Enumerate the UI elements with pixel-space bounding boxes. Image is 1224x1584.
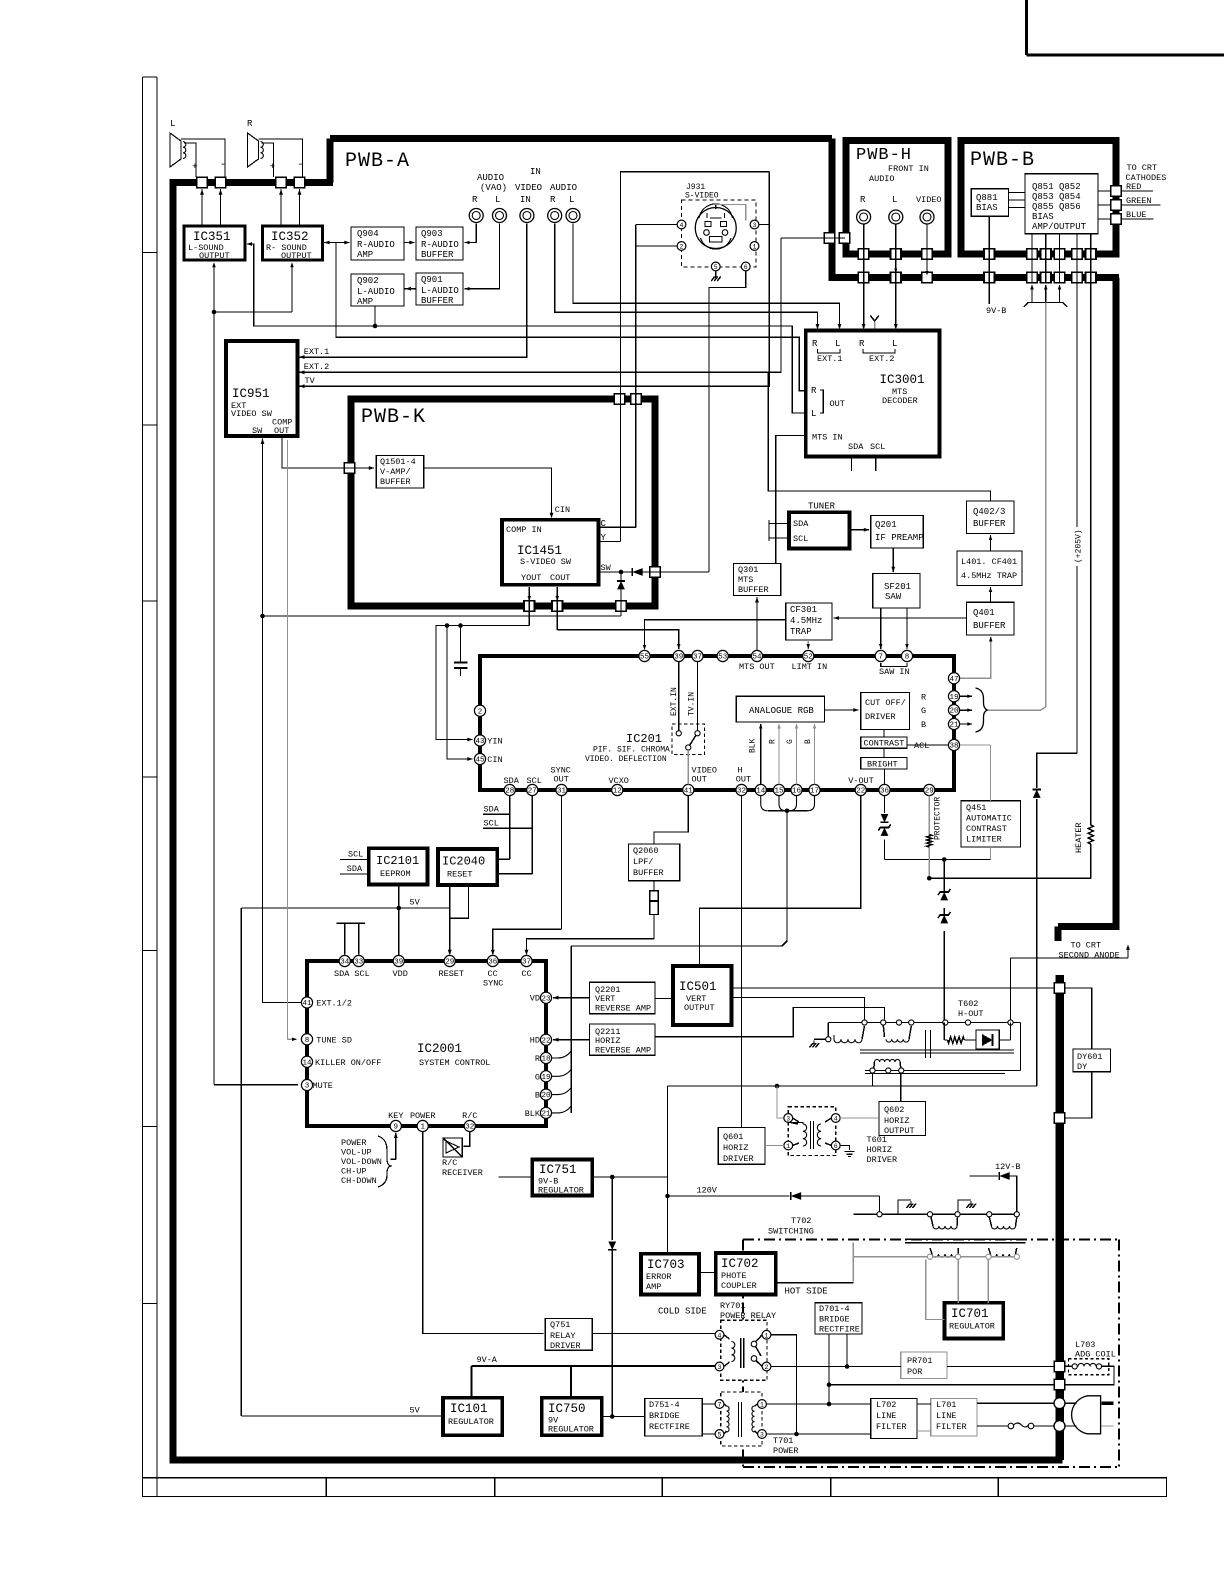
svg-text:R: R	[247, 119, 253, 129]
svg-text:32: 32	[737, 788, 746, 796]
svg-text:EEPROM: EEPROM	[380, 869, 411, 879]
svg-text:HORIZ: HORIZ	[595, 1036, 621, 1046]
wire front video stub	[925, 225, 928, 276]
svg-text:EXT.2: EXT.2	[869, 354, 895, 364]
IC201 pin 53	[717, 650, 728, 661]
svg-text:19: 19	[949, 694, 958, 702]
svg-text:L: L	[892, 195, 897, 205]
jack audio VAO R	[469, 209, 483, 223]
J931 pin 2	[677, 242, 686, 251]
svg-text:COUT: COUT	[550, 573, 570, 583]
svg-text:Q902: Q902	[357, 276, 379, 286]
svg-text:OUT: OUT	[692, 775, 707, 785]
svg-text:BLK: BLK	[749, 738, 758, 753]
svg-text:OUT: OUT	[830, 399, 845, 409]
svg-text:IC501: IC501	[679, 980, 717, 994]
wire CF301 output to IC201 pin52	[807, 640, 811, 649]
svg-text:BLUE: BLUE	[1126, 210, 1146, 220]
Q451 automatic contrast limiter	[961, 801, 1021, 847]
transistor Q904 R-audio amp	[351, 227, 404, 260]
svg-text:OUT: OUT	[274, 426, 289, 436]
diode below pin36	[881, 814, 889, 822]
wire speaker feeds from IC352	[279, 189, 301, 226]
wire Q881 bias to 9V-B	[986, 216, 1006, 316]
svg-text:CH-DOWN: CH-DOWN	[341, 1176, 377, 1186]
IC101 regulator	[443, 1398, 502, 1436]
wire MUTE net from sound outputs to IC2001 pin3	[212, 262, 298, 1084]
IC201 pin 55	[639, 650, 650, 661]
IC2001 pin 32	[462, 1111, 477, 1132]
svg-text:5V: 5V	[410, 1406, 421, 1416]
svg-text:KEY: KEY	[388, 1111, 403, 1121]
wire pin32 H OUT to Q601	[741, 796, 743, 1128]
jack front audio R	[857, 210, 871, 224]
wire IC201 pin54 MTS OUT to Q301	[755, 597, 759, 651]
svg-text:L: L	[170, 119, 175, 129]
IC201 pin 17	[809, 784, 820, 795]
svg-text:52: 52	[804, 654, 813, 662]
svg-text:5V: 5V	[410, 898, 421, 908]
svg-text:LIMT IN: LIMT IN	[792, 662, 828, 672]
svg-text:Q602: Q602	[884, 1105, 904, 1115]
wire CF301 to IC201 pin55	[643, 620, 786, 650]
svg-text:SAW: SAW	[885, 592, 902, 602]
IC201 pin 14	[755, 784, 766, 795]
svg-text:(+205V): (+205V)	[1075, 529, 1084, 563]
wires L702 to L701	[917, 1404, 931, 1431]
svg-text:120V: 120V	[697, 1186, 718, 1196]
svg-text:OUT: OUT	[736, 775, 751, 785]
svg-text:IC2001: IC2001	[417, 1042, 462, 1056]
T602 terminal	[909, 1020, 914, 1025]
svg-text:Q402/3: Q402/3	[973, 507, 1005, 517]
svg-text:6: 6	[744, 264, 748, 271]
svg-text:3: 3	[305, 1083, 310, 1091]
wire IC750 to D751 bridge	[602, 1416, 645, 1418]
T702 primary terminal	[877, 1212, 882, 1217]
RY701 pin 2	[762, 1362, 771, 1371]
svg-text:REGULATOR: REGULATOR	[548, 1425, 594, 1435]
diodes D701-4 bridge rectifier	[815, 1303, 862, 1335]
svg-text:4: 4	[718, 1332, 722, 1339]
svg-text:EXT.IN: EXT.IN	[670, 687, 679, 716]
svg-text:1: 1	[760, 1402, 764, 1409]
IC201 pin 2	[474, 705, 485, 716]
svg-text:BRIGHT: BRIGHT	[867, 760, 898, 770]
IC501 vert output	[673, 966, 732, 1025]
svg-text:BUFFER: BUFFER	[380, 477, 411, 487]
svg-text:17: 17	[810, 788, 819, 796]
svg-text:6: 6	[834, 1143, 838, 1150]
IC201 PIF SIF chroma video deflection	[480, 656, 954, 790]
wire KEY inputs bracket	[341, 1133, 398, 1188]
svg-text:R: R	[921, 693, 926, 703]
wire TUNE SD into IC2001 pin8	[288, 440, 298, 1041]
connector pads PWB-B bottom edge	[984, 249, 1096, 260]
svg-text:22: 22	[541, 1037, 550, 1045]
svg-text:EXT.1: EXT.1	[817, 354, 843, 364]
svg-text:4: 4	[834, 1116, 838, 1123]
svg-text:EXT.2: EXT.2	[304, 362, 330, 372]
wire SW net to IC1451 and IC951 and IC2001 EXT.1/2	[260, 439, 709, 1003]
front jack labels PWB-H	[860, 164, 942, 205]
wire IC3001 SDA SCL stubs	[852, 459, 876, 472]
wire front audio L to IC3001 EXT2 L	[894, 225, 898, 330]
svg-text:CIN: CIN	[487, 755, 502, 765]
svg-text:RECTFIRE: RECTFIRE	[819, 1325, 860, 1335]
svg-text:L: L	[811, 409, 816, 419]
wire COUT to IC201 pin39 EXT.IN	[556, 587, 681, 649]
R/C receiver symbol	[442, 1138, 483, 1178]
wire YOUT to IC201 pin43 YIN	[436, 587, 531, 742]
svg-text:CIN: CIN	[555, 505, 570, 515]
svg-text:-: -	[220, 160, 226, 171]
T702 primary terminal	[1014, 1212, 1019, 1217]
svg-text:VOL-UP: VOL-UP	[341, 1148, 372, 1158]
IC951 ext video switch	[226, 341, 298, 436]
svg-text:29: 29	[445, 959, 454, 967]
svg-text:BUFFER: BUFFER	[421, 250, 454, 260]
IC201 pin 21	[948, 718, 959, 729]
ground stub T702 left	[898, 1200, 916, 1214]
svg-text:4.5MHz: 4.5MHz	[790, 616, 822, 626]
svg-text:1: 1	[786, 1143, 790, 1150]
svg-text:G: G	[535, 1072, 540, 1082]
svg-text:BUFFER: BUFFER	[738, 585, 769, 595]
svg-text:AMP: AMP	[646, 1282, 661, 1292]
T602 lower terminal	[886, 1068, 891, 1073]
IC201 internal input switch	[670, 662, 705, 785]
svg-text:21: 21	[541, 1111, 551, 1119]
IC201 pin 43	[474, 735, 502, 747]
wire Q602 to T602	[900, 1074, 902, 1102]
wire Q2211 to IC2001 pin22 HD	[553, 1038, 590, 1042]
svg-text:SDA: SDA	[793, 519, 809, 529]
wire pin41 video out to Q2060	[654, 796, 688, 844]
svg-text:3: 3	[760, 1432, 764, 1439]
T602 terminal	[896, 1020, 901, 1025]
filter CF301 4.5MHz trap	[786, 603, 832, 640]
IC201 pin 45	[474, 753, 502, 765]
svg-text:OUT: OUT	[554, 775, 569, 785]
svg-text:IC351: IC351	[193, 230, 231, 244]
svg-text:47: 47	[949, 676, 958, 684]
IC201 pin 36	[879, 784, 890, 795]
svg-text:BUFFER: BUFFER	[973, 621, 1006, 631]
wire Q301 to IC3001 MTS IN	[776, 436, 806, 564]
J931 pin 4	[677, 220, 686, 229]
svg-text:19: 19	[541, 1074, 550, 1082]
svg-text:OUTPUT: OUTPUT	[281, 251, 312, 261]
svg-text:HEATER: HEATER	[1074, 822, 1084, 853]
IC201 pin 20	[948, 705, 959, 716]
svg-text:R: R	[859, 339, 865, 349]
IC2001 pin 29	[444, 955, 455, 966]
jack audio in R	[548, 209, 562, 223]
svg-text:IF PREAMP: IF PREAMP	[875, 533, 924, 543]
wire SDA SCL bracket over IC2001 pins 34 33	[336, 923, 365, 954]
wire IC501 second output to T602	[732, 998, 865, 1020]
wire T601 pin6 to ground	[840, 1146, 854, 1157]
IC201 pin 54	[751, 650, 762, 661]
wire T601 internal stubs	[793, 1118, 832, 1146]
svg-text:BIAS: BIAS	[1032, 212, 1054, 222]
svg-text:Q851 Q852: Q851 Q852	[1032, 182, 1081, 192]
diode on SW line horizontal	[632, 568, 642, 576]
wire CIN into pin45	[445, 623, 473, 761]
zener diode stack on beam sense line	[943, 878, 945, 1022]
svg-text:B: B	[921, 720, 926, 730]
wire T702 secondary to IC702	[776, 1282, 854, 1284]
diode on 9V-B feed	[608, 1242, 616, 1250]
svg-text:RECEIVER: RECEIVER	[442, 1168, 483, 1178]
svg-text:POWER: POWER	[773, 1446, 799, 1456]
svg-text:SYNC: SYNC	[483, 979, 503, 989]
wires D751 to T701	[702, 1404, 715, 1434]
svg-text:MTS: MTS	[738, 575, 753, 585]
svg-text:CONTRAST: CONTRAST	[966, 824, 1007, 834]
tuner block	[789, 502, 850, 549]
svg-text:15: 15	[774, 788, 784, 796]
connector J931 S-video	[682, 183, 757, 267]
wire Q901 to Q902	[404, 287, 416, 291]
wire pin29 protector with resistor	[927, 796, 1091, 881]
IC2001 pin 9	[388, 1111, 403, 1132]
diode on 12V-B line	[999, 1172, 1009, 1180]
wire T601 pin3 feed	[777, 1086, 784, 1118]
svg-text:Q401: Q401	[973, 608, 995, 618]
svg-text:R: R	[535, 1054, 540, 1064]
marker chevron IC3001 input	[870, 316, 879, 329]
svg-text:21: 21	[949, 722, 959, 730]
J931 ground	[711, 271, 721, 281]
wire speaker feeds from IC351	[200, 189, 222, 226]
filter L702 line filter	[871, 1399, 917, 1439]
wire IC751 output to IC703	[592, 1175, 667, 1419]
svg-text:4: 4	[680, 222, 684, 229]
wire RGB bus from IC201 pins 19-21	[960, 688, 1046, 732]
svg-text:KILLER ON/OFF: KILLER ON/OFF	[315, 1058, 381, 1068]
rear input jack labels	[472, 167, 577, 205]
wire L701 to AC plug top	[977, 1402, 1077, 1404]
svg-text:IC703: IC703	[647, 1258, 685, 1272]
svg-text:T602: T602	[958, 999, 978, 1009]
cut off driver block	[861, 693, 910, 730]
T602 terminal	[862, 1020, 867, 1025]
T702 secondary terminal	[1014, 1254, 1019, 1259]
svg-text:32: 32	[465, 1124, 474, 1132]
svg-text:ANALOGUE RGB: ANALOGUE RGB	[749, 706, 814, 716]
IC201 pin 41	[683, 784, 694, 795]
transistor Q751 relay driver	[545, 1319, 592, 1352]
IC201 pin 15	[773, 784, 784, 795]
transistor Q902 L-audio amp	[351, 274, 404, 307]
svg-text:POWER: POWER	[341, 1138, 367, 1148]
IC2001 pin 33	[353, 955, 364, 966]
svg-text:Q1501-4: Q1501-4	[380, 457, 416, 467]
wire IC201 pin27 SCL down	[483, 796, 532, 874]
svg-text:5: 5	[718, 1432, 722, 1439]
transistor Q602 horiz output	[879, 1102, 926, 1137]
wire +205V feed down to flyback	[873, 799, 1037, 1086]
svg-text:12V-B: 12V-B	[995, 1162, 1021, 1172]
IC2001 pin 3	[301, 1079, 333, 1091]
svg-text:VD: VD	[530, 994, 540, 1004]
svg-text:TV: TV	[305, 376, 316, 386]
svg-text:AMP/OUTPUT: AMP/OUTPUT	[1032, 222, 1087, 232]
transistor Q301 MTS buffer	[734, 564, 781, 596]
IC2001 pin 39	[393, 955, 404, 966]
svg-text:HORIZ: HORIZ	[867, 1145, 893, 1155]
svg-text:AMP: AMP	[357, 250, 373, 260]
svg-text:L703: L703	[1075, 1340, 1095, 1350]
wire rear audio R to IC3001 EXT1 R	[555, 224, 820, 330]
svg-text:SF201: SF201	[884, 582, 911, 592]
svg-text:YOUT: YOUT	[521, 573, 541, 583]
svg-text:DECODER: DECODER	[882, 396, 918, 406]
svg-text:C: C	[601, 519, 607, 529]
svg-text:IC2040: IC2040	[442, 855, 485, 869]
wire net TV video: S-video Y / tuner to IC951 and IC1451	[299, 172, 769, 543]
svg-text:Q853 Q854: Q853 Q854	[1032, 192, 1081, 202]
svg-text:BIAS: BIAS	[976, 203, 998, 213]
svg-text:IC3001: IC3001	[880, 373, 925, 387]
J931 pin 6	[741, 262, 750, 271]
svg-text:AMP: AMP	[357, 297, 373, 307]
svg-text:CUT OFF/: CUT OFF/	[865, 698, 906, 708]
svg-text:SW: SW	[601, 563, 612, 573]
svg-text:Q601: Q601	[723, 1132, 743, 1142]
svg-text:4.5MHz TRAP: 4.5MHz TRAP	[961, 571, 1017, 581]
wire analogue RGB to cut off driver	[825, 708, 859, 712]
wire COMP OUT IC951 to Q1501	[282, 436, 374, 470]
wire IC2040 reset out to IC2001 pin29	[448, 885, 452, 955]
svg-text:SDA: SDA	[347, 864, 363, 874]
jack audio VAO L	[493, 209, 507, 223]
svg-text:D751-4: D751-4	[649, 1400, 680, 1410]
svg-text:Q751: Q751	[550, 1320, 570, 1330]
svg-text:SYSTEM CONTROL: SYSTEM CONTROL	[419, 1058, 490, 1068]
op-amp IC351 L-sound output	[184, 226, 245, 261]
jack video in	[520, 209, 534, 223]
wire RGB bus pins 14-17 down to IC2001	[571, 796, 814, 1113]
svg-text:RELAY: RELAY	[550, 1331, 576, 1341]
svg-text:1: 1	[420, 1124, 425, 1132]
svg-text:RESET: RESET	[447, 870, 473, 880]
svg-text:38: 38	[949, 743, 958, 751]
svg-text:36: 36	[488, 959, 498, 967]
svg-text:IC750: IC750	[548, 1402, 586, 1416]
wire 5V rail to IC2001 VDD pin39	[398, 908, 400, 955]
svg-text:L701: L701	[936, 1400, 956, 1410]
svg-text:LPF/: LPF/	[633, 857, 653, 867]
svg-text:Q301: Q301	[738, 565, 758, 575]
IC1451 S-video switch	[502, 520, 599, 585]
svg-text:27: 27	[528, 788, 537, 796]
svg-text:S-VIDEO SW: S-VIDEO SW	[520, 557, 572, 567]
svg-text:SDA: SDA	[484, 805, 500, 815]
svg-text:29: 29	[925, 788, 934, 796]
wire heater line from PWB-B	[1074, 283, 1091, 878]
svg-text:14: 14	[302, 1059, 312, 1067]
svg-text:Q201: Q201	[875, 520, 897, 530]
IC201 pin 28	[504, 784, 515, 795]
diodes D751-4 bridge rectifier	[645, 1399, 703, 1437]
wire 5V rail	[241, 898, 449, 1417]
svg-text:DRIVER: DRIVER	[550, 1341, 581, 1351]
svg-text:SCL: SCL	[348, 850, 363, 860]
title block fragment top-right corner	[1026, 0, 1224, 55]
wire rear audio L to IC3001 EXT1 L	[573, 224, 841, 330]
svg-text:POWER RELAY: POWER RELAY	[720, 1311, 776, 1321]
svg-text:REVERSE AMP: REVERSE AMP	[595, 1046, 651, 1056]
wire IC201 pin47 to Q401	[960, 637, 993, 679]
svg-text:DRIVER: DRIVER	[867, 1155, 898, 1165]
svg-text:VIDEO: VIDEO	[515, 183, 542, 193]
svg-text:R: R	[472, 195, 478, 205]
svg-text:RED: RED	[1126, 182, 1141, 192]
T702 secondary terminal	[955, 1254, 960, 1259]
connector pads PWB-H bottom edge	[858, 249, 932, 260]
wire Q401 to CF301	[834, 616, 967, 620]
svg-text:PHOTE: PHOTE	[721, 1271, 747, 1281]
svg-text:55: 55	[640, 654, 650, 662]
svg-text:2: 2	[478, 708, 483, 716]
IC201 pin 7	[875, 650, 886, 661]
IC751 9V-B regulator	[532, 1160, 592, 1196]
IC750 9V regulator	[542, 1398, 602, 1436]
svg-text:R: R	[550, 195, 556, 205]
svg-text:SDA SCL: SDA SCL	[334, 969, 370, 979]
svg-text:L-AUDIO: L-AUDIO	[357, 287, 395, 297]
J931 pin 5	[711, 262, 720, 271]
IC703 error amp	[641, 1254, 699, 1295]
wire S-video pin 6 to SW net	[709, 271, 746, 572]
svg-text:PROTECTOR: PROTECTOR	[934, 797, 943, 840]
svg-text:BRIDGE: BRIDGE	[649, 1411, 680, 1421]
T702 primary terminal	[987, 1212, 992, 1217]
page left ruler column	[143, 77, 158, 1497]
svg-text:16: 16	[792, 788, 802, 796]
svg-text:34: 34	[340, 959, 350, 967]
damper diode network in T602	[926, 1023, 1011, 1059]
jack audio in L	[566, 209, 580, 223]
deflection yoke DY601 box	[1073, 1049, 1111, 1072]
IC702 photo coupler	[716, 1253, 776, 1295]
wire net L-audio from IC3001 L OUT to IC351	[247, 242, 806, 413]
transistor Q601 horiz driver	[718, 1128, 765, 1165]
svg-text:DY: DY	[1077, 1062, 1087, 1072]
wire Q904 to Q903	[404, 241, 415, 245]
svg-text:AUDIO: AUDIO	[477, 173, 504, 183]
svg-text:PWB-A: PWB-A	[345, 150, 410, 173]
wires Q881 to Q851 block	[1009, 193, 1026, 208]
svg-text:Q903: Q903	[421, 229, 443, 239]
svg-text:IC751: IC751	[539, 1163, 577, 1177]
svg-text:L702: L702	[876, 1400, 896, 1410]
svg-text:54: 54	[752, 654, 762, 662]
svg-text:IC2101: IC2101	[376, 854, 419, 868]
svg-text:L-AUDIO: L-AUDIO	[421, 286, 459, 296]
svg-text:CONTRAST: CONTRAST	[864, 739, 905, 749]
T601 pin 4	[831, 1114, 840, 1123]
svg-text:MTS IN: MTS IN	[812, 433, 843, 443]
svg-text:IC101: IC101	[450, 1402, 488, 1416]
wires T702 secondary to IC701	[926, 1259, 989, 1319]
svg-text:12: 12	[613, 788, 622, 796]
svg-text:PIF. SIF. CHROMA: PIF. SIF. CHROMA	[593, 746, 670, 755]
svg-text:REGULATOR: REGULATOR	[448, 1417, 494, 1427]
